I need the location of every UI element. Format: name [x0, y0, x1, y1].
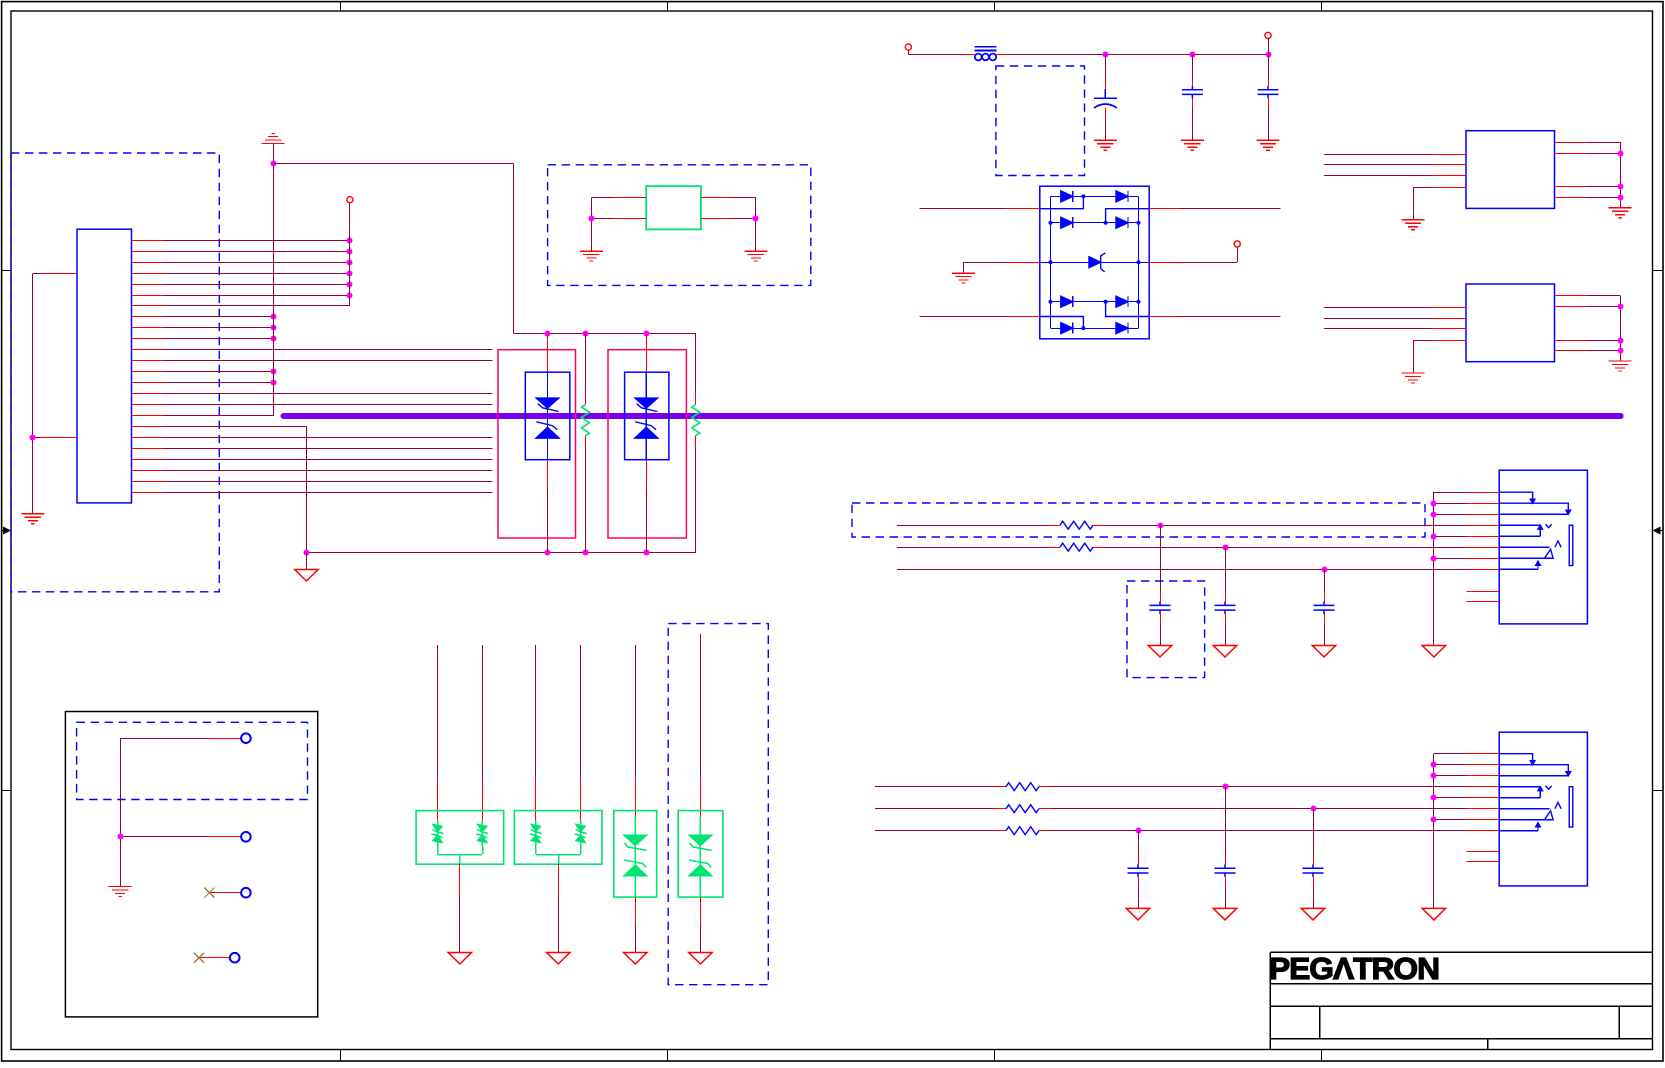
net-B connector pin wire 3 [1434, 775, 1467, 777]
dashed box around mid RC wire 1 [852, 503, 1425, 537]
pink box D1 outline [498, 350, 576, 538]
test point TP1 [241, 733, 251, 743]
net-A cap C2 wire [1225, 547, 1227, 591]
wire row 12 [165, 360, 493, 362]
net-A connector pin stub 4 [1467, 525, 1500, 527]
TVS ground bottom rail wire [306, 552, 695, 554]
U1 diode D22 [1116, 217, 1128, 228]
D3 green body [416, 811, 504, 865]
TP4 no-connect cross [194, 953, 204, 963]
earth ground below C3 [1257, 140, 1280, 150]
IC U2 output wire 2 [1555, 153, 1588, 155]
U1 row2 wire [1051, 222, 1139, 224]
D3 diode pair symbols [432, 821, 444, 847]
TP ground vertical wire [120, 738, 122, 886]
U1 right bottom wire [1149, 316, 1180, 318]
CN1 pin stub row 8 [132, 316, 165, 318]
U1 diode D21 [1061, 217, 1073, 228]
D5 lower wire [635, 897, 637, 926]
wire row 17 to ground vertical [165, 415, 274, 417]
net-B ground triangle cap C3 [1126, 908, 1149, 920]
IC U2 output wire 3 [1555, 186, 1588, 188]
cap C2 symbol [1182, 86, 1203, 99]
net-A connector pin wire 5 [1434, 536, 1467, 538]
FL1 left wires maroon [591, 197, 612, 199]
wire row 24 [165, 492, 493, 494]
IC U2 output wire 1 [1555, 142, 1588, 144]
IC U3 input wire 1 [1324, 307, 1431, 309]
power rail wire [1008, 54, 1268, 56]
net-A connector pin stub 1 [1467, 492, 1500, 494]
title block outline [1270, 952, 1652, 1049]
net-B connector junction dots [1431, 762, 1437, 768]
CN1 pin stub row 13 [132, 371, 165, 373]
wire row 22 [165, 470, 493, 472]
zone tick left lower [2, 790, 11, 792]
CN1 pin stub row 5 [132, 284, 165, 286]
D4 internal bracket [535, 847, 537, 855]
IC U3 ground input wire [1413, 341, 1415, 373]
U1 pin4 internal step [1106, 302, 1150, 317]
CN1 pin stub row 7 [132, 305, 165, 307]
TVS D1 lower maroon wire [547, 491, 549, 552]
IC U3 output wire 3 [1555, 340, 1588, 342]
terminal T4 open circle [1234, 241, 1240, 247]
net-A junction dot cap 3 [1322, 567, 1328, 573]
net-B signal wire 1 [875, 786, 994, 788]
CN1 pin stub row 20 [132, 448, 165, 450]
left edge alignment arrow [2, 527, 11, 535]
IC U2 input wire 2 [1324, 164, 1431, 166]
junction dot FL1 left [589, 216, 595, 222]
ground net vertical wire x=273.2 [273, 144, 275, 417]
net-A signal wire 2 [897, 547, 1048, 549]
CN1 pin stub row 10 [132, 338, 165, 340]
IC U2 body [1466, 131, 1555, 209]
U1 diode D12 [1116, 191, 1128, 202]
CN1 pin stub row 22 [132, 470, 165, 472]
U1 diode D41 [1061, 296, 1073, 307]
net-A connector pin wire 2 [1434, 503, 1467, 505]
CN1 pin stub row 23 [132, 481, 165, 483]
D5 input wire [635, 645, 637, 777]
net-B cap C1 wire [1225, 787, 1227, 854]
U1 diode D52 [1116, 323, 1128, 334]
dashed box around filter FL1 [548, 165, 811, 286]
CN1 pin stub row 21 [132, 459, 165, 461]
net-A connector body [1499, 470, 1587, 624]
junction dots rows 13-14 [271, 369, 277, 375]
IC U3 output junction dots [1618, 304, 1624, 310]
wire row 18 bending down [165, 426, 307, 428]
cap C3 symbol [1258, 86, 1279, 99]
CN1 pin stub row 19 [132, 437, 165, 439]
test point TP3 [241, 888, 251, 898]
U1 pin1 internal step [1040, 196, 1084, 208]
D3 input wire [437, 645, 439, 777]
earth ground below C1 [1094, 140, 1117, 150]
connector CN1 body [77, 229, 132, 503]
spark gap SG1 green zigzag [582, 405, 590, 436]
IC U2 output junction dots [1618, 151, 1624, 157]
net-B signal wire 2 [875, 808, 994, 810]
net-A ground triangle cap C1 [1148, 646, 1171, 658]
U1 internal junction dots [1081, 194, 1085, 198]
U1 pin2 internal step [1106, 209, 1150, 223]
test point TP4 [230, 953, 240, 963]
TVS D2 lower maroon wire [646, 491, 648, 552]
IC U2 input wire 1 [1324, 154, 1431, 156]
wire row 19 [165, 437, 493, 439]
terminal T2 stem [908, 50, 910, 55]
CN1 pin stub row 3 [132, 262, 165, 264]
right edge alignment arrow [1653, 527, 1664, 535]
TVS D2 pin wires red [646, 335, 648, 372]
TP3 no-connect cross [204, 888, 214, 898]
IC U2 output wire 4 [1555, 197, 1588, 199]
wire row 23 [165, 481, 493, 483]
CN1 pin stub row 11 [132, 349, 165, 351]
net-A resistor R2 [1060, 543, 1093, 551]
terminal T3 open circle [1265, 32, 1271, 38]
junction dot FL1 right [753, 216, 759, 222]
FL1 left vertical wire [591, 198, 593, 252]
U1 mid row wire [1051, 262, 1139, 264]
CN1 pin stub row 24 [132, 492, 165, 494]
dashed box around net-A cap 1 [1127, 581, 1205, 678]
spark gap SG2 vertical wire [695, 334, 697, 394]
U1 left mid wire [963, 262, 965, 273]
TVS diode pair D1 blue box [525, 372, 570, 460]
U1 pin3 internal step [1040, 317, 1084, 329]
IC U2 input wire 3 [1324, 175, 1431, 177]
dashed box around diode D6 [668, 624, 768, 985]
net-A connector pin wire 1 [1434, 492, 1467, 494]
CN1 pin stub row 12 [132, 360, 165, 362]
FB1 left red stub [963, 54, 975, 56]
CN1 pin stub row 9 [132, 327, 165, 329]
earth ground IC U3 input [1402, 373, 1425, 383]
net-A junction dot cap 2 [1223, 545, 1229, 551]
zone tick left upper [2, 270, 11, 272]
net-A connector pin stub 7 [1467, 558, 1500, 560]
net-B junction dot cap 2 [1311, 806, 1317, 812]
dashed block outline around connector CN1 section [11, 153, 219, 592]
net-A signal wire 3 [897, 569, 1467, 571]
TP1 wire [120, 738, 207, 740]
net-A cap C3 wire [1324, 569, 1326, 591]
net-A connector pin stub 5 [1467, 536, 1500, 538]
net-A cap C1 symbol [1150, 601, 1171, 614]
net-A cap C3 symbol [1314, 601, 1335, 614]
wire ground net to TVS top rail [273, 163, 513, 165]
wire row 20 [165, 448, 493, 450]
test point section outline box [65, 712, 317, 1017]
earth ground FL1 right [744, 251, 767, 261]
ground triangle D5 [624, 953, 647, 965]
TVS diode pair D1 symbol [536, 372, 559, 460]
CN1 pin stub row 16 [132, 404, 165, 406]
net-B ground triangle cap C1 [1213, 908, 1236, 920]
D4 diode pair symbols [530, 821, 542, 847]
ground triangle D3 [448, 953, 471, 965]
U1 right mid wire [1149, 262, 1180, 264]
wire row18 ground stem [306, 552, 308, 569]
net-B ground triangle connector [1422, 908, 1445, 920]
ground triangle below row18 [295, 570, 318, 582]
TP3 wire red [209, 892, 241, 894]
D3 internal bracket [437, 847, 439, 855]
net-A signal wire 1 [897, 525, 1048, 527]
diode bridge U1 outline [1040, 186, 1149, 339]
zone tick bottom 2 [667, 1050, 669, 1062]
net-B cap C2 wire [1313, 809, 1315, 854]
FL1 right pin stubs red [701, 197, 733, 199]
wire row 21 [165, 459, 493, 461]
dashed box for bulk cap C1 [996, 66, 1085, 176]
net-B cap C3 symbol [1128, 864, 1149, 877]
IC U3 output bus vertical [1620, 296, 1622, 361]
D4 center tap wire [558, 854, 560, 864]
D4 input wire [535, 645, 537, 777]
CN1 left pin 2 wire [39, 437, 78, 439]
wire row 15 [165, 393, 493, 395]
net-A junction dot cap 1 [1158, 523, 1164, 529]
U1 row4 wire [1051, 301, 1139, 303]
TVS diode pair D2 symbol [635, 372, 658, 460]
net-A resistor R1 [1060, 521, 1093, 529]
polarized cap C1 symbol [1094, 89, 1117, 108]
net-A connector pin stub 3 [1467, 514, 1500, 516]
U1 left rail [1050, 196, 1052, 328]
IC U3 input wire 2 [1324, 318, 1431, 320]
D4 green body [514, 811, 602, 865]
CN1 pin stub row 14 [132, 382, 165, 384]
CN1 pin stub row 6 [132, 295, 165, 297]
cap C1 bottom wire [1105, 108, 1107, 120]
net-A connector pin stub 2 [1467, 503, 1500, 505]
TP2 wire [120, 836, 207, 838]
IC U3 output wire 4 [1555, 350, 1588, 352]
net-A connector ground vertical [1433, 492, 1435, 645]
earth ground below CN1 left [21, 514, 44, 524]
CN1 pin stub row 15 [132, 393, 165, 395]
net-B connector internal contacts [1499, 754, 1573, 831]
net-A ground triangle cap C3 [1312, 646, 1335, 658]
net-A connector junction dots [1431, 501, 1437, 507]
net-A connector pin wire 3 [1434, 514, 1467, 516]
IC U3 body [1466, 284, 1555, 362]
net-B cap C2 symbol [1303, 864, 1324, 877]
wire row 16 [165, 404, 493, 406]
D4 input wire 2 [580, 645, 582, 777]
zone tick right lower [1653, 790, 1664, 792]
net-B connector body [1499, 732, 1587, 886]
net-B connector pin stub 4 [1467, 786, 1500, 788]
zone tick bottom 3 [994, 1050, 996, 1062]
CN1 pin stub row 17 [132, 415, 165, 417]
earth ground TP net [109, 887, 132, 897]
zone tick right upper [1653, 270, 1664, 272]
U1 diode D42 [1116, 296, 1128, 307]
net-B connector pin stub 5 [1467, 797, 1500, 799]
ground triangle D6 [689, 953, 712, 965]
pink box D2 outline [608, 350, 686, 538]
D5 TVS symbol [624, 817, 647, 897]
CN1 pin stub row 1 [132, 240, 165, 242]
junction dot ground net top [271, 161, 277, 167]
IC U3 output wire 1 [1555, 295, 1588, 297]
junction dots rows 8-10 [271, 314, 277, 320]
junction dots on TVS bottom rail [304, 550, 310, 556]
TVS diode pair D2 blue box [625, 372, 669, 460]
ground triangle D4 [547, 953, 570, 965]
earth ground below C2 [1181, 140, 1204, 150]
net-B connector pin stub 6 [1467, 808, 1500, 810]
net-A connector pin wire 7 [1434, 558, 1467, 560]
U1 diode D11 [1061, 191, 1073, 202]
D6 green body [678, 811, 723, 898]
net-B connector NC stubs [1467, 851, 1500, 853]
wire rows 13-14 to ground vertical [165, 371, 274, 373]
spark gap SG2 green zigzag [692, 405, 700, 436]
earth ground IC U3 output [1609, 361, 1632, 371]
net-A ground triangle connector [1422, 646, 1445, 658]
net-B connector pin stub 8 [1467, 830, 1500, 832]
net-B cap C1 symbol [1215, 864, 1236, 877]
wire row 7 [165, 305, 350, 307]
chassis ground symbol above ground net [262, 134, 285, 144]
D3 center tap wire [459, 854, 461, 864]
CN1 pin stub row 18 [132, 426, 165, 428]
net-B connector pin stub 1 [1467, 753, 1500, 755]
CN1 left ground vertical wire [32, 273, 34, 513]
dashed box around TP1 [77, 722, 308, 799]
junction dots on power rail [1103, 52, 1109, 58]
zone tick top 2 [667, 2, 669, 11]
net-A connector internal contacts [1499, 492, 1573, 569]
svg-text:PEGΛTRON: PEGΛTRON [1269, 951, 1439, 986]
terminal vertical wire x=349.9 [349, 203, 351, 306]
U1 left bottom wire [919, 316, 1006, 318]
FL1 right wires maroon [733, 197, 756, 199]
U1 diode D51 [1061, 323, 1073, 334]
zone tick top 4 [1321, 2, 1323, 11]
U1 mid pins internal [1040, 262, 1051, 264]
zone tick top 1 [340, 2, 342, 11]
FB1 right red stub [997, 54, 1009, 56]
net-B resistor R2 [1006, 805, 1039, 813]
cap C1 top wire [1105, 55, 1107, 80]
junction dots rows 1-6 [347, 238, 353, 244]
net-B resistor R3 [1006, 827, 1039, 835]
terminal T2 open circle [905, 44, 911, 50]
net-B signal wire 3 [875, 830, 994, 832]
wire rows 1-6 to terminal bus vertical [165, 240, 350, 242]
net-B connector pin wire 7 [1434, 819, 1467, 821]
IC U3 output wire 2 [1555, 306, 1588, 308]
net-A connector pin stub 8 [1467, 569, 1500, 571]
D6 input wire [700, 634, 702, 777]
cap C3 bottom wire [1268, 98, 1270, 109]
filter FL1 green body [646, 186, 701, 229]
net-B connector ground vertical [1433, 754, 1435, 909]
D5 green body [614, 811, 657, 898]
net-B cap C3 wire [1138, 831, 1140, 854]
IC U2 output bus vertical [1620, 142, 1622, 207]
U1 right top wire [1149, 208, 1180, 210]
net-A ground triangle cap C2 [1213, 646, 1236, 658]
ferrite bead FB1 [975, 47, 997, 61]
U1 right rail [1138, 196, 1140, 328]
earth ground FL1 left [580, 251, 603, 261]
IC U2 ground input wire [1413, 187, 1415, 219]
cap C2 bottom wire [1192, 98, 1194, 109]
net-B junction dot cap 1 [1223, 784, 1229, 790]
D6 lower wire [700, 897, 702, 926]
terminal T3 stem wire [1268, 39, 1270, 55]
FL1 left pin stubs red [612, 197, 646, 199]
net-A connector pin stub 6 [1467, 547, 1500, 549]
U1 row5 wire [1051, 328, 1139, 330]
earth ground IC U2 output [1609, 208, 1632, 218]
earth ground U1 left [952, 273, 975, 283]
net-A cap C2 symbol [1215, 601, 1236, 614]
cap C2 top wire [1192, 55, 1194, 81]
power input wire left of FB1 [908, 54, 962, 56]
junction dot TP2 [118, 834, 124, 840]
TVS D1 pin wires red [547, 335, 549, 372]
terminal T1 open circle [347, 197, 353, 203]
net-B junction dot cap 3 [1136, 828, 1142, 834]
test point TP2 [241, 832, 251, 842]
earth ground IC U2 input [1402, 220, 1425, 230]
net-B connector pin wire 2 [1434, 764, 1467, 766]
net-B connector pin wire 5 [1434, 797, 1467, 799]
thick purple bus net [284, 413, 1621, 419]
U1 row1 wire [1051, 196, 1139, 198]
junction dot left pin 2 [30, 435, 36, 441]
net-B ground triangle cap C2 [1301, 908, 1324, 920]
zone tick bottom 4 [1321, 1050, 1323, 1062]
wire row 11 [165, 349, 493, 351]
D3 input wire 2 [482, 645, 484, 777]
wire rows 8-10 to ground vertical [165, 316, 274, 318]
zone tick top 3 [994, 2, 996, 11]
spark gap SG1 vertical wire [585, 334, 587, 394]
FL1 right vertical wire [755, 198, 757, 252]
net-B connector pin wire 1 [1434, 753, 1467, 755]
CN1 pin stub row 4 [132, 273, 165, 275]
IC U3 input wire 3 [1324, 328, 1431, 330]
D6 TVS symbol [689, 817, 712, 897]
net-A connector NC stubs [1467, 591, 1500, 593]
TP4 wire red [199, 957, 230, 959]
U1 left top wire [919, 208, 1006, 210]
net-B connector pin stub 2 [1467, 764, 1500, 766]
cap C3 top wire [1268, 55, 1270, 81]
net-B resistor R1 [1006, 783, 1039, 791]
CN1 pin stub row 2 [132, 251, 165, 253]
junction dots on TVS top rail [545, 331, 551, 337]
net-B connector pin stub 3 [1467, 775, 1500, 777]
CN1 left pin 1 wire [44, 273, 77, 275]
net-B connector pin stub 7 [1467, 819, 1500, 821]
net-A cap C1 wire [1160, 525, 1162, 591]
U1 zener DZ symbol [1089, 253, 1105, 272]
zone tick bottom 1 [340, 1050, 342, 1062]
